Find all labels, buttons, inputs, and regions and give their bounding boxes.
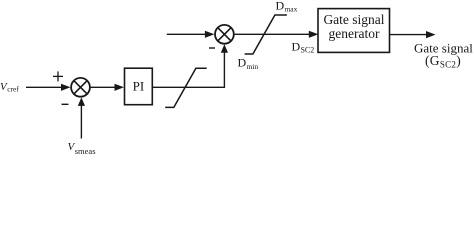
svg-text:Dmax: Dmax xyxy=(276,0,298,14)
svg-text:Dmin: Dmin xyxy=(238,56,259,71)
summing junction S2 xyxy=(215,25,234,44)
wire S2 to gate signal generator xyxy=(234,31,318,38)
wire PI output to summing junction S2 xyxy=(152,44,228,87)
svg-text:Gate signal: Gate signal xyxy=(323,12,384,27)
saturation symbol after PI xyxy=(165,68,207,107)
wire S1 to PI block xyxy=(91,84,124,91)
block PI controller xyxy=(125,68,153,105)
svg-text:DSC2: DSC2 xyxy=(292,40,315,55)
plus sign at S1 input xyxy=(53,71,63,81)
summing junction S1 xyxy=(71,78,90,97)
wire Vsmeas to S1 xyxy=(78,97,85,138)
svg-text:generator: generator xyxy=(329,26,380,41)
wire Vcref to summing junction S1 xyxy=(26,84,71,91)
svg-text:Gate signal: Gate signal xyxy=(414,41,473,56)
svg-text:PI: PI xyxy=(133,79,145,94)
minus sign at S2 bottom input xyxy=(209,47,215,49)
wire gate output xyxy=(390,31,436,38)
svg-text:Vcref: Vcref xyxy=(0,81,19,94)
svg-text:Vsmeas: Vsmeas xyxy=(68,141,96,154)
limiter symbol with Dmax/Dmin xyxy=(245,15,287,54)
block gate signal generator xyxy=(318,9,390,53)
minus sign at S1 feedback input xyxy=(62,103,69,105)
wire into S2 from left xyxy=(167,31,215,38)
